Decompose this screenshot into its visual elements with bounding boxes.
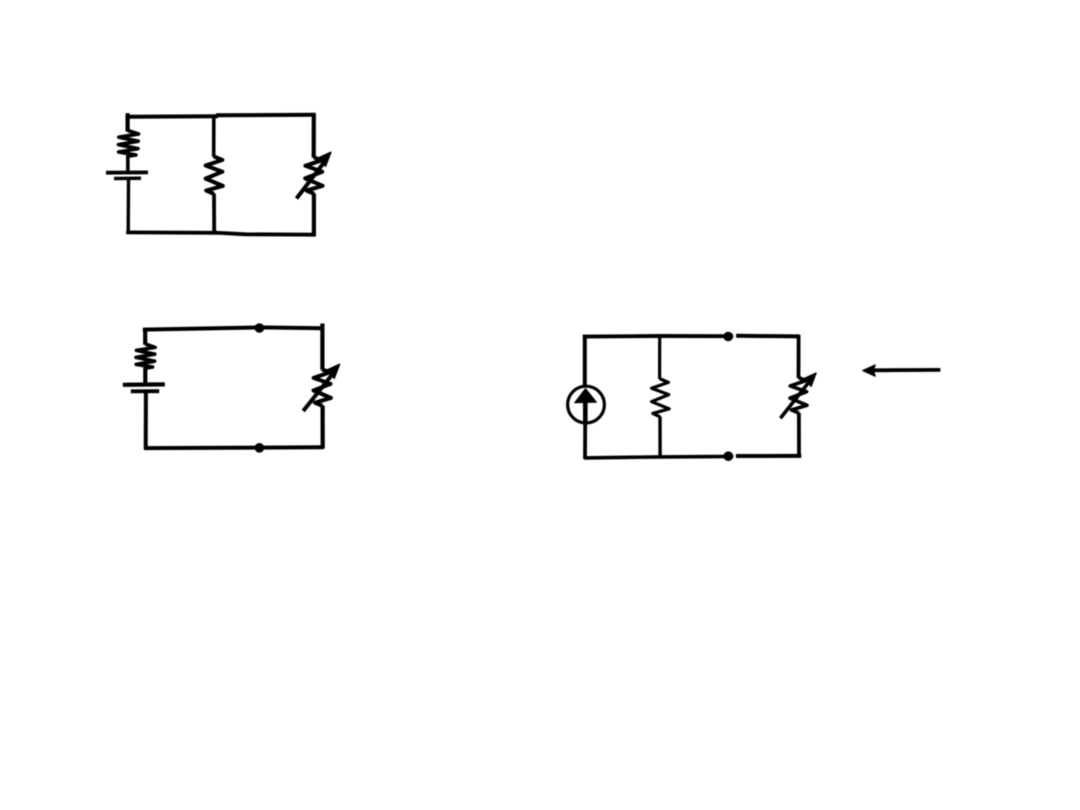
- wire: circuit1 top wire left segment: [126, 114, 218, 119]
- battery V2 long plate: [123, 382, 165, 387]
- rheostat RV1 zigzag (circuit1): [305, 157, 322, 194]
- wire: circuit1 left branch upper: [125, 113, 129, 131]
- wire: circuit2 left branch lower: [144, 392, 148, 449]
- wire: circuit1 right branch upper: [312, 113, 316, 157]
- current source I1 arrow shaft: [583, 401, 588, 425]
- node D dot (circuit3 bottom): [724, 451, 734, 461]
- battery V1 short plate: [114, 177, 141, 181]
- wire: circuit3 left branch upper: [583, 335, 587, 387]
- wire: circuit3 middle branch upper: [658, 335, 661, 379]
- wire: circuit2 right branch lower: [321, 406, 325, 449]
- wire: circuit1 bottom wire left segment: [126, 230, 217, 234]
- rheostat RV3 arrow shaft: [780, 382, 808, 418]
- rheostat RV3 zigzag (circuit3): [790, 378, 807, 414]
- wire: circuit1 between R1 and battery: [126, 156, 130, 172]
- wire: circuit2 top wire: [143, 327, 324, 329]
- wire: circuit3 bottom wire left of node: [584, 456, 733, 458]
- rheostat RV3 arrowhead: [804, 373, 817, 387]
- wire: circuit3 top wire right of node: [736, 334, 799, 339]
- node B dot (circuit2 bottom): [255, 443, 265, 453]
- wire: circuit2 right branch upper with corner stub: [320, 324, 324, 370]
- battery V1 long plate: [106, 170, 148, 174]
- wire: circuit1 bottom wire right segment: [214, 233, 316, 235]
- battery V2 short plate: [131, 389, 159, 393]
- rheostat RV1 arrowhead: [318, 152, 331, 166]
- wire: circuit3 right branch upper: [797, 335, 801, 378]
- resistor R3 coil (above battery, circuit2): [136, 344, 155, 368]
- wire: circuit2 left branch upper: [143, 328, 147, 345]
- rheostat RV2 zigzag (circuit2): [314, 369, 331, 406]
- wire: circuit3 top wire left of node: [583, 334, 733, 339]
- resistor R1 (coil above battery, circuit1): [118, 131, 138, 157]
- wire: circuit3 left branch lower: [583, 423, 587, 459]
- resistor R4 (middle branch, circuit3): [652, 379, 670, 417]
- rheostat RV2 arrowhead: [327, 364, 340, 378]
- annotation arrowhead: [863, 365, 875, 376]
- wire: circuit1 middle branch lower: [212, 194, 216, 235]
- wire: circuit2 between R3 and battery: [143, 368, 147, 384]
- wire: circuit2 bottom wire: [144, 445, 324, 450]
- wire: circuit3 bottom wire right of node: [736, 454, 801, 458]
- wire: circuit1 top wire right segment: [216, 113, 316, 118]
- rheostat RV2 arrow shaft: [303, 374, 332, 411]
- current source I1 arrowhead: [575, 389, 597, 403]
- wire: circuit3 middle branch lower: [658, 417, 661, 459]
- wire: circuit3 right branch lower: [797, 413, 801, 458]
- resistor R2 (middle branch, circuit1): [206, 156, 223, 194]
- current source I1 circle: [568, 386, 605, 423]
- rheostat RV1 arrow shaft: [297, 163, 325, 199]
- node C dot (circuit3 top): [723, 332, 733, 342]
- wire: circuit1 middle branch upper: [212, 115, 216, 157]
- wire: circuit1 left branch lower: [126, 180, 130, 234]
- annotation arrow shaft (pointing left): [872, 368, 941, 372]
- wire: circuit1 right branch lower: [312, 194, 316, 236]
- node A dot (circuit2 top): [255, 323, 265, 333]
